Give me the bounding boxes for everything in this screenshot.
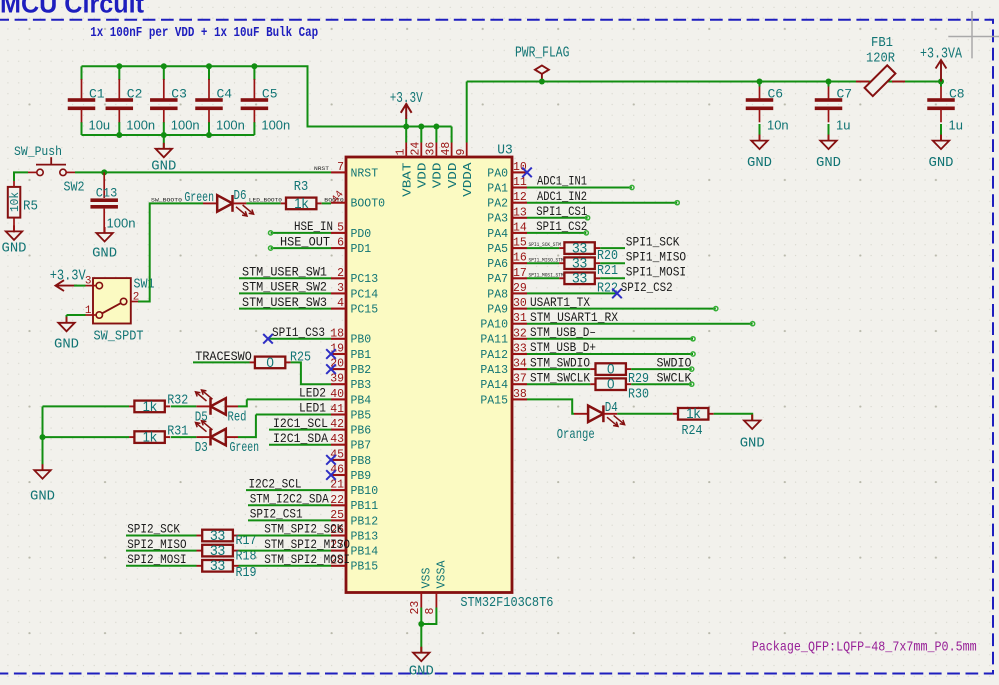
wire C6 bottom stem [759, 124, 761, 141]
svg-text:VDD: VDD [431, 163, 445, 189]
wire SW1 pin2 to BOOT0 [138, 203, 203, 301]
wire SPI2_MISO [126, 550, 197, 552]
svg-text:PA9: PA9 [487, 303, 508, 317]
mcu pin PB10 [330, 479, 378, 498]
label STM_SPI2_MISO [264, 537, 350, 552]
mcu pin PA2 [487, 191, 527, 210]
svg-text:C4: C4 [217, 87, 233, 102]
svg-text:STM_USER_SW3: STM_USER_SW3 [242, 295, 327, 310]
label LED2 [299, 386, 326, 401]
svg-text:3: 3 [85, 276, 92, 288]
svg-text:LED_BOOT0: LED_BOOT0 [249, 196, 283, 203]
svg-text:SPI2_MISO: SPI2_MISO [127, 537, 187, 552]
svg-text:PA14: PA14 [480, 378, 508, 392]
svg-text:PB3: PB3 [351, 378, 372, 392]
svg-text:I2C1_SCL: I2C1_SCL [273, 416, 328, 431]
svg-text:SW1: SW1 [134, 278, 155, 293]
svg-text:100n: 100n [261, 118, 290, 133]
wire led gnd bus [42, 406, 44, 470]
svg-text:33: 33 [210, 543, 225, 558]
wire SPI1_MOSI right [600, 277, 625, 279]
svg-text:36: 36 [425, 142, 438, 156]
svg-text:VDD: VDD [446, 163, 460, 189]
wire SPI2_MOSI [126, 565, 197, 567]
text title MCU Circuit [0, 0, 144, 19]
wire STM_USB_D- [527, 337, 695, 341]
svg-text:HSE_OUT: HSE_OUT [280, 234, 330, 249]
svg-text:PC14: PC14 [351, 287, 379, 301]
wire LED1 [238, 415, 331, 438]
svg-text:42: 42 [330, 418, 344, 431]
wire SPI2_CS1 [248, 519, 331, 521]
svg-text:18: 18 [330, 327, 344, 340]
resistor R17 [197, 528, 257, 549]
svg-text:24: 24 [410, 142, 423, 156]
wire USART1_TX [527, 307, 718, 311]
svg-text:STM_SPI2_MISO: STM_SPI2_MISO [264, 537, 350, 552]
svg-text:1u: 1u [949, 118, 963, 133]
svg-text:Green: Green [230, 441, 260, 456]
text SW1 value [94, 330, 144, 345]
svg-text:NRST: NRST [314, 165, 330, 172]
svg-text:C13: C13 [96, 186, 118, 201]
mcu pin PB9 [330, 464, 371, 483]
svg-text:22: 22 [330, 494, 344, 507]
junction VDD rail [433, 124, 439, 130]
wire cap stem top [118, 66, 120, 80]
wire LED2 [238, 399, 331, 406]
wire cap stem bottom [208, 122, 210, 135]
svg-text:1u: 1u [836, 118, 850, 133]
ground leds [30, 464, 55, 504]
mcu pin PA8 [487, 282, 527, 301]
mcu pin PA12 [480, 343, 527, 362]
switch SW2 [28, 157, 75, 175]
mcu pin VSS 23 [409, 568, 434, 615]
svg-text:PA5: PA5 [487, 242, 508, 256]
svg-text:PB12: PB12 [351, 514, 379, 528]
svg-text:PB9: PB9 [351, 469, 372, 483]
svg-text:30: 30 [513, 297, 527, 310]
svg-text:PA3: PA3 [487, 212, 508, 226]
svg-text:GND: GND [92, 246, 117, 262]
svg-text:SPI1_MOSI: SPI1_MOSI [626, 265, 686, 280]
wire cap stem bottom [163, 122, 165, 135]
svg-text:GND: GND [54, 337, 79, 353]
mcu pin VDD 24 [410, 142, 430, 189]
wire SPI1_MOSI left [527, 277, 559, 279]
wire C7 top stem [828, 82, 830, 87]
text D5 ref [195, 410, 208, 425]
label STM_USB_D+ [530, 340, 596, 355]
label SPI1_CS2 [536, 219, 587, 234]
led D4 arrows [607, 415, 625, 426]
wire C8 bottom stem [940, 124, 942, 141]
mcu pin BOOT0 [331, 197, 385, 211]
label STM_SWCLK [530, 370, 590, 385]
wire SPI2_SCK [126, 535, 197, 537]
svg-text:STM_USER_SW2: STM_USER_SW2 [242, 280, 327, 295]
svg-text:BOOT0: BOOT0 [351, 197, 386, 211]
resistor R22 [559, 271, 618, 297]
wire STM_USER_SW3 [239, 308, 331, 310]
mcu pin PA4 [487, 221, 527, 240]
wire ADC1_IN1 [527, 185, 634, 189]
svg-text:PA12: PA12 [480, 348, 508, 362]
wire STM_SPI2_MOSI [239, 565, 332, 567]
svg-text:1: 1 [394, 149, 407, 156]
label STM_SPI2_SCK [264, 522, 343, 537]
wire SPI2_CS2 [527, 292, 617, 294]
svg-text:R24: R24 [682, 424, 703, 439]
svg-text:C1: C1 [89, 87, 105, 102]
svg-text:SPI1_CS3: SPI1_CS3 [272, 325, 325, 340]
wire R3 to BOOT0 pin [322, 202, 331, 204]
mcu pin PC14 [331, 282, 378, 301]
label HSE_OUT [280, 234, 330, 249]
label STM_USER_SW2 [242, 280, 327, 295]
mcu pin PB13 [330, 524, 378, 543]
switch SW1 SW_SPDT [86, 278, 139, 323]
svg-text:39: 39 [330, 373, 344, 386]
svg-text:PB8: PB8 [351, 454, 372, 468]
mcu pin PA1 [487, 176, 527, 195]
mcu pin PA15 [480, 388, 527, 407]
capacitor C3 [150, 79, 200, 133]
svg-text:SPI2_CS1: SPI2_CS1 [250, 507, 303, 522]
svg-text:GND: GND [740, 436, 765, 452]
svg-text:SPI2_MOSI: SPI2_MOSI [127, 552, 186, 567]
svg-text:23: 23 [409, 601, 422, 615]
junction C8 [938, 79, 944, 85]
resistor R25 [250, 351, 311, 370]
led D3 arrows [196, 421, 213, 432]
junction bottom bus [116, 132, 122, 138]
svg-text:C6: C6 [768, 87, 784, 102]
svg-text:GND: GND [30, 489, 55, 505]
svg-text:+3.3V: +3.3V [50, 269, 86, 285]
svg-text:PD1: PD1 [351, 242, 372, 256]
label SPI1_SCK [626, 234, 680, 249]
led D6 arrows [236, 205, 254, 216]
label SPI1_SCK_STM small [529, 242, 561, 248]
text D4 value Orange [557, 428, 595, 443]
svg-text:SW2: SW2 [64, 181, 85, 196]
resistor R32 [129, 394, 188, 414]
text SW_Push [14, 145, 62, 159]
svg-text:1k: 1k [686, 406, 701, 421]
wire ADC1_IN2 [527, 201, 679, 205]
svg-text:PB7: PB7 [351, 439, 372, 453]
svg-text:+3.3V: +3.3V [390, 91, 423, 107]
svg-text:16: 16 [513, 252, 527, 265]
svg-text:PB10: PB10 [351, 484, 379, 498]
label LED1 [299, 401, 326, 416]
wire C6 top stem [759, 82, 761, 87]
svg-text:I2C1_SDA: I2C1_SDA [273, 431, 328, 446]
svg-text:PB14: PB14 [351, 545, 379, 559]
label LED_BOOT0 small [249, 196, 283, 203]
svg-text:STM_SWCLK: STM_SWCLK [530, 370, 590, 385]
resistor R3 [281, 180, 322, 211]
svg-text:D4: D4 [605, 401, 618, 416]
wire cap stem top [163, 66, 165, 80]
resistor R18 [197, 543, 257, 564]
svg-text:3: 3 [337, 282, 344, 295]
svg-text:43: 43 [330, 433, 344, 446]
wire C8 top stem [940, 82, 942, 87]
label STM_I2C2_SDA [250, 492, 329, 507]
ground SW1 [54, 317, 79, 353]
svg-text:USART1_TX: USART1_TX [530, 295, 590, 310]
svg-text:100n: 100n [126, 118, 155, 133]
svg-text:STM_USB_D–: STM_USB_D– [530, 325, 596, 340]
label USART1_TX [530, 295, 590, 310]
resistor R5 [8, 181, 38, 232]
svg-text:100n: 100n [107, 215, 136, 230]
svg-text:PA1: PA1 [487, 181, 508, 195]
svg-text:PA0: PA0 [487, 166, 508, 180]
wire VDDA vertical [466, 82, 468, 143]
wire SW1 pin1 to gnd [67, 315, 86, 323]
pin number SW1-2 [133, 292, 140, 304]
svg-text:1k: 1k [294, 196, 309, 211]
mcu pin VDD 48 [440, 142, 460, 189]
mcu pin PB2 [330, 358, 371, 377]
text SW1 ref [134, 278, 155, 293]
no-connect PB8 [326, 455, 336, 465]
svg-text:PC13: PC13 [351, 272, 379, 286]
wire TRACESWO [193, 361, 250, 363]
text note decoupling [90, 25, 318, 41]
svg-text:8: 8 [424, 608, 437, 615]
resistor R29 [590, 362, 649, 388]
resistor R30 [590, 377, 649, 403]
capacitor C6 [746, 79, 789, 133]
label SPI1_MISO_STM small [529, 257, 564, 263]
svg-text:LED2: LED2 [299, 386, 326, 401]
svg-text:Package_QFP:LQFP–48_7x7mm_P0.5: Package_QFP:LQFP–48_7x7mm_P0.5mm [752, 639, 977, 655]
power +3.3V at VBAT [390, 91, 423, 127]
svg-text:PB2: PB2 [351, 363, 372, 377]
svg-text:R30: R30 [628, 388, 649, 403]
svg-text:SW_Push: SW_Push [14, 145, 62, 159]
label ADC1_IN2 [537, 189, 587, 204]
junction C6 [757, 79, 763, 85]
svg-text:SPI2_CS2: SPI2_CS2 [621, 280, 673, 295]
svg-text:17: 17 [513, 267, 527, 280]
svg-text:GND: GND [2, 241, 27, 257]
text SW2 ref [64, 181, 85, 196]
mcu pin PB12 [330, 509, 378, 528]
mcu pin VBAT 1 [394, 143, 414, 197]
mcu pin NRST [331, 161, 378, 180]
svg-text:D3: D3 [195, 441, 208, 456]
svg-text:7: 7 [337, 161, 344, 174]
svg-text:SPI1_CS1: SPI1_CS1 [536, 204, 587, 219]
label I2C1_SDA [273, 431, 328, 446]
svg-text:R21: R21 [597, 264, 618, 279]
mcu pin PD0 [331, 221, 371, 240]
wire VDD top bus [82, 66, 452, 126]
ground R5 [2, 225, 27, 256]
svg-text:VDD: VDD [416, 163, 430, 189]
svg-text:13: 13 [513, 206, 527, 219]
label SPI2_CS1 [250, 507, 303, 522]
svg-text:R31: R31 [167, 424, 188, 439]
svg-text:40: 40 [330, 388, 344, 401]
svg-text:C7: C7 [837, 87, 853, 102]
wire R24 to gnd [714, 414, 753, 421]
resistor R24 [673, 406, 714, 439]
mcu pin PB7 [330, 433, 371, 452]
svg-text:5: 5 [337, 221, 344, 234]
svg-text:PA7: PA7 [487, 272, 508, 286]
wire R31 to gnd bus [43, 436, 130, 438]
label SPI1_CS1 [536, 204, 587, 219]
label SPI1_MOSI [626, 265, 686, 280]
svg-text:SWCLK: SWCLK [657, 370, 692, 385]
svg-text:VSS: VSS [420, 568, 434, 589]
svg-text:GND: GND [409, 664, 434, 680]
wire SWDIO right [631, 367, 694, 371]
svg-text:PA8: PA8 [487, 287, 508, 301]
svg-text:STM_SPI2_MOSI: STM_SPI2_MOSI [264, 552, 350, 567]
svg-text:ADC1_IN2: ADC1_IN2 [537, 189, 587, 204]
svg-text:PA10: PA10 [480, 318, 508, 332]
label SW_BOOT0 small [151, 196, 183, 203]
wire VDD pin drop [405, 127, 407, 143]
svg-text:MCU Circuit: MCU Circuit [0, 0, 144, 19]
junction VDD rail [418, 124, 424, 130]
wire STM_SWDIO left [527, 368, 590, 370]
mcu U3 body [346, 157, 512, 593]
svg-text:HSE_IN: HSE_IN [294, 219, 333, 234]
mcu pin PB15 [330, 554, 378, 573]
wire cap stem bottom [253, 122, 255, 135]
no-connect SPI1_CS3 [263, 334, 273, 344]
svg-text:PA4: PA4 [487, 227, 508, 241]
svg-text:STM_SWDIO: STM_SWDIO [530, 355, 590, 370]
capacitor C13 [90, 172, 135, 233]
wire cap stem top [208, 66, 210, 80]
wire STM_USB_D+ [527, 352, 695, 356]
junction NRST C13 [101, 169, 107, 175]
no-connect PB1 [326, 349, 336, 359]
junction top bus [116, 63, 122, 69]
label STM_USER_SW3 [242, 295, 327, 310]
svg-text:PB5: PB5 [351, 408, 372, 422]
wire STM_SWCLK left [527, 383, 590, 385]
led D3 [196, 429, 238, 446]
label I2C2_SCL [249, 476, 302, 491]
pin number 44 rotated [330, 189, 347, 206]
wire SPI1_MISO right [600, 262, 625, 264]
mcu pin PB1 [330, 343, 371, 362]
mcu pin PC15 [331, 297, 378, 316]
mcu pin PB8 [330, 448, 371, 467]
svg-text:SPI1_MISO: SPI1_MISO [626, 249, 686, 264]
resistor R31 [129, 424, 188, 444]
wire cap stem bottom [81, 122, 83, 135]
wire VSS down [420, 608, 422, 653]
ground U3 [409, 647, 434, 680]
wire SPI1_MISO left [527, 262, 559, 264]
svg-text:33: 33 [572, 256, 587, 271]
power +3.3VA at C8 [920, 47, 962, 82]
svg-text:FB1: FB1 [871, 36, 893, 51]
wire STM_SPI2_SCK [239, 535, 332, 537]
svg-text:10n: 10n [767, 118, 789, 133]
wire PA15 to D4 [527, 399, 574, 413]
no-connect PB2 [326, 364, 336, 374]
label ADC1_IN1 [537, 174, 587, 189]
junction top bus [251, 63, 257, 69]
svg-text:4: 4 [337, 297, 344, 310]
junction top bus [161, 63, 167, 69]
mcu pin PA7 [487, 267, 527, 286]
label SWCLK [657, 370, 692, 385]
ground C6 [747, 135, 772, 171]
capacitor C2 [106, 79, 156, 133]
label STM_USART1_RX [530, 310, 618, 325]
svg-text:32: 32 [513, 327, 527, 340]
svg-text:PA11: PA11 [480, 333, 508, 347]
svg-text:STM_SPI2_SCK: STM_SPI2_SCK [264, 522, 343, 537]
svg-text:1x 100nF per VDD + 1x 10uF Bul: 1x 100nF per VDD + 1x 10uF Bulk Cap [90, 25, 318, 41]
text U3 ref [497, 144, 513, 159]
wire D5 to R32 [171, 405, 197, 407]
wire VDD pin drop 48 [451, 127, 453, 143]
resistor R19 [197, 558, 257, 581]
wire VSSA jog [421, 608, 436, 625]
led D5 [196, 398, 238, 415]
svg-text:R32: R32 [167, 394, 188, 409]
svg-text:STM_USART1_RX: STM_USART1_RX [530, 310, 618, 325]
text D3 ref [195, 441, 208, 456]
wire D6 to R3 [246, 202, 280, 204]
mcu pin PB4 [330, 388, 371, 407]
wire SPI1_CS1 [527, 216, 590, 220]
svg-text:PWR_FLAG: PWR_FLAG [515, 46, 570, 62]
capacitor C5 [241, 79, 291, 133]
svg-text:PB13: PB13 [351, 529, 379, 543]
svg-text:STM_I2C2_SDA: STM_I2C2_SDA [250, 492, 329, 507]
ground C8 [929, 135, 954, 171]
text D4 ref [605, 401, 618, 416]
label SPI2_MISO [127, 537, 187, 552]
svg-text:38: 38 [513, 388, 527, 401]
label STM_SPI2_MOSI [264, 552, 350, 567]
resistor R21 [559, 256, 618, 279]
wire SPI1_CS2 [527, 231, 588, 235]
wire D4 to R24 [617, 413, 672, 415]
grey alignment cross [948, 11, 999, 58]
svg-text:25: 25 [330, 509, 344, 522]
svg-text:R18: R18 [236, 549, 257, 564]
wire VDD bottom bus [82, 134, 255, 136]
wire STM_USER_SW2 [239, 292, 331, 294]
wire NRST net [75, 171, 331, 173]
mcu pin PB6 [330, 418, 371, 437]
wire STM_SPI2_MISO [239, 550, 332, 552]
wire cap stem bottom [118, 122, 120, 135]
svg-text:NRST: NRST [351, 166, 379, 180]
label SPI1_CS3 [272, 325, 325, 340]
svg-text:29: 29 [513, 282, 527, 295]
junction PWR_FLAG [539, 79, 545, 85]
svg-text:VBAT: VBAT [401, 163, 415, 197]
